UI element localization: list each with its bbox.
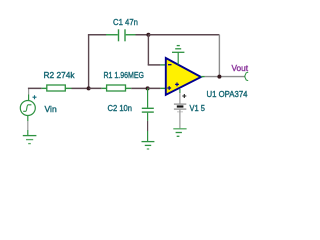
wire inverting input vertical <box>147 35 149 65</box>
wire Vin to R2 <box>28 87 42 89</box>
ground above op-amp (inverted) <box>172 46 184 53</box>
svg-text:R2 274k: R2 274k <box>44 70 76 80</box>
capacitor C2 <box>142 88 154 121</box>
resistor R2 <box>42 85 72 91</box>
wire node B to op-amp <box>148 87 161 89</box>
wire node A to R1 <box>89 87 102 89</box>
svg-text:R1 1.96MEG: R1 1.96MEG <box>104 70 145 80</box>
wire top to right corner <box>148 34 219 36</box>
pin lead inverting input <box>160 64 165 66</box>
pin lead non-inverting input <box>160 87 165 89</box>
voltage source Vin <box>20 88 36 115</box>
svg-text:Vin: Vin <box>45 104 57 114</box>
wire feedback top-left horizontal <box>88 34 106 36</box>
op-amp U1 <box>166 58 201 95</box>
battery V1 <box>174 89 186 128</box>
svg-text:C2 10n: C2 10n <box>108 103 133 113</box>
wire C2 to ground <box>147 121 149 142</box>
wire R1 to node B <box>131 87 147 89</box>
ground below Vin <box>23 116 37 144</box>
wire C1 to feedback node <box>136 34 149 36</box>
pin lead op-amp output <box>201 76 205 78</box>
wire feedback left vertical <box>88 35 90 89</box>
node A junction <box>87 86 91 90</box>
resistor R1 <box>102 85 132 91</box>
capacitor C1 <box>106 29 136 41</box>
svg-text:U1 OPA374: U1 OPA374 <box>207 89 248 99</box>
pin lead op-amp V- supply <box>177 52 179 64</box>
svg-text:V1 5: V1 5 <box>190 103 206 113</box>
wire output <box>205 76 246 78</box>
ground below battery <box>173 129 186 137</box>
node output junction <box>217 75 221 79</box>
wire R2 to node A <box>72 87 89 89</box>
svg-text:Vout: Vout <box>232 63 249 73</box>
node B junction <box>146 86 150 90</box>
wire inverting input horizontal <box>148 64 161 66</box>
node feedback junction <box>146 33 150 37</box>
ground below C2 <box>142 142 155 149</box>
svg-text:C1 47n: C1 47n <box>113 17 138 27</box>
terminal Vout <box>245 72 249 81</box>
wire right vertical down to output <box>218 35 220 77</box>
